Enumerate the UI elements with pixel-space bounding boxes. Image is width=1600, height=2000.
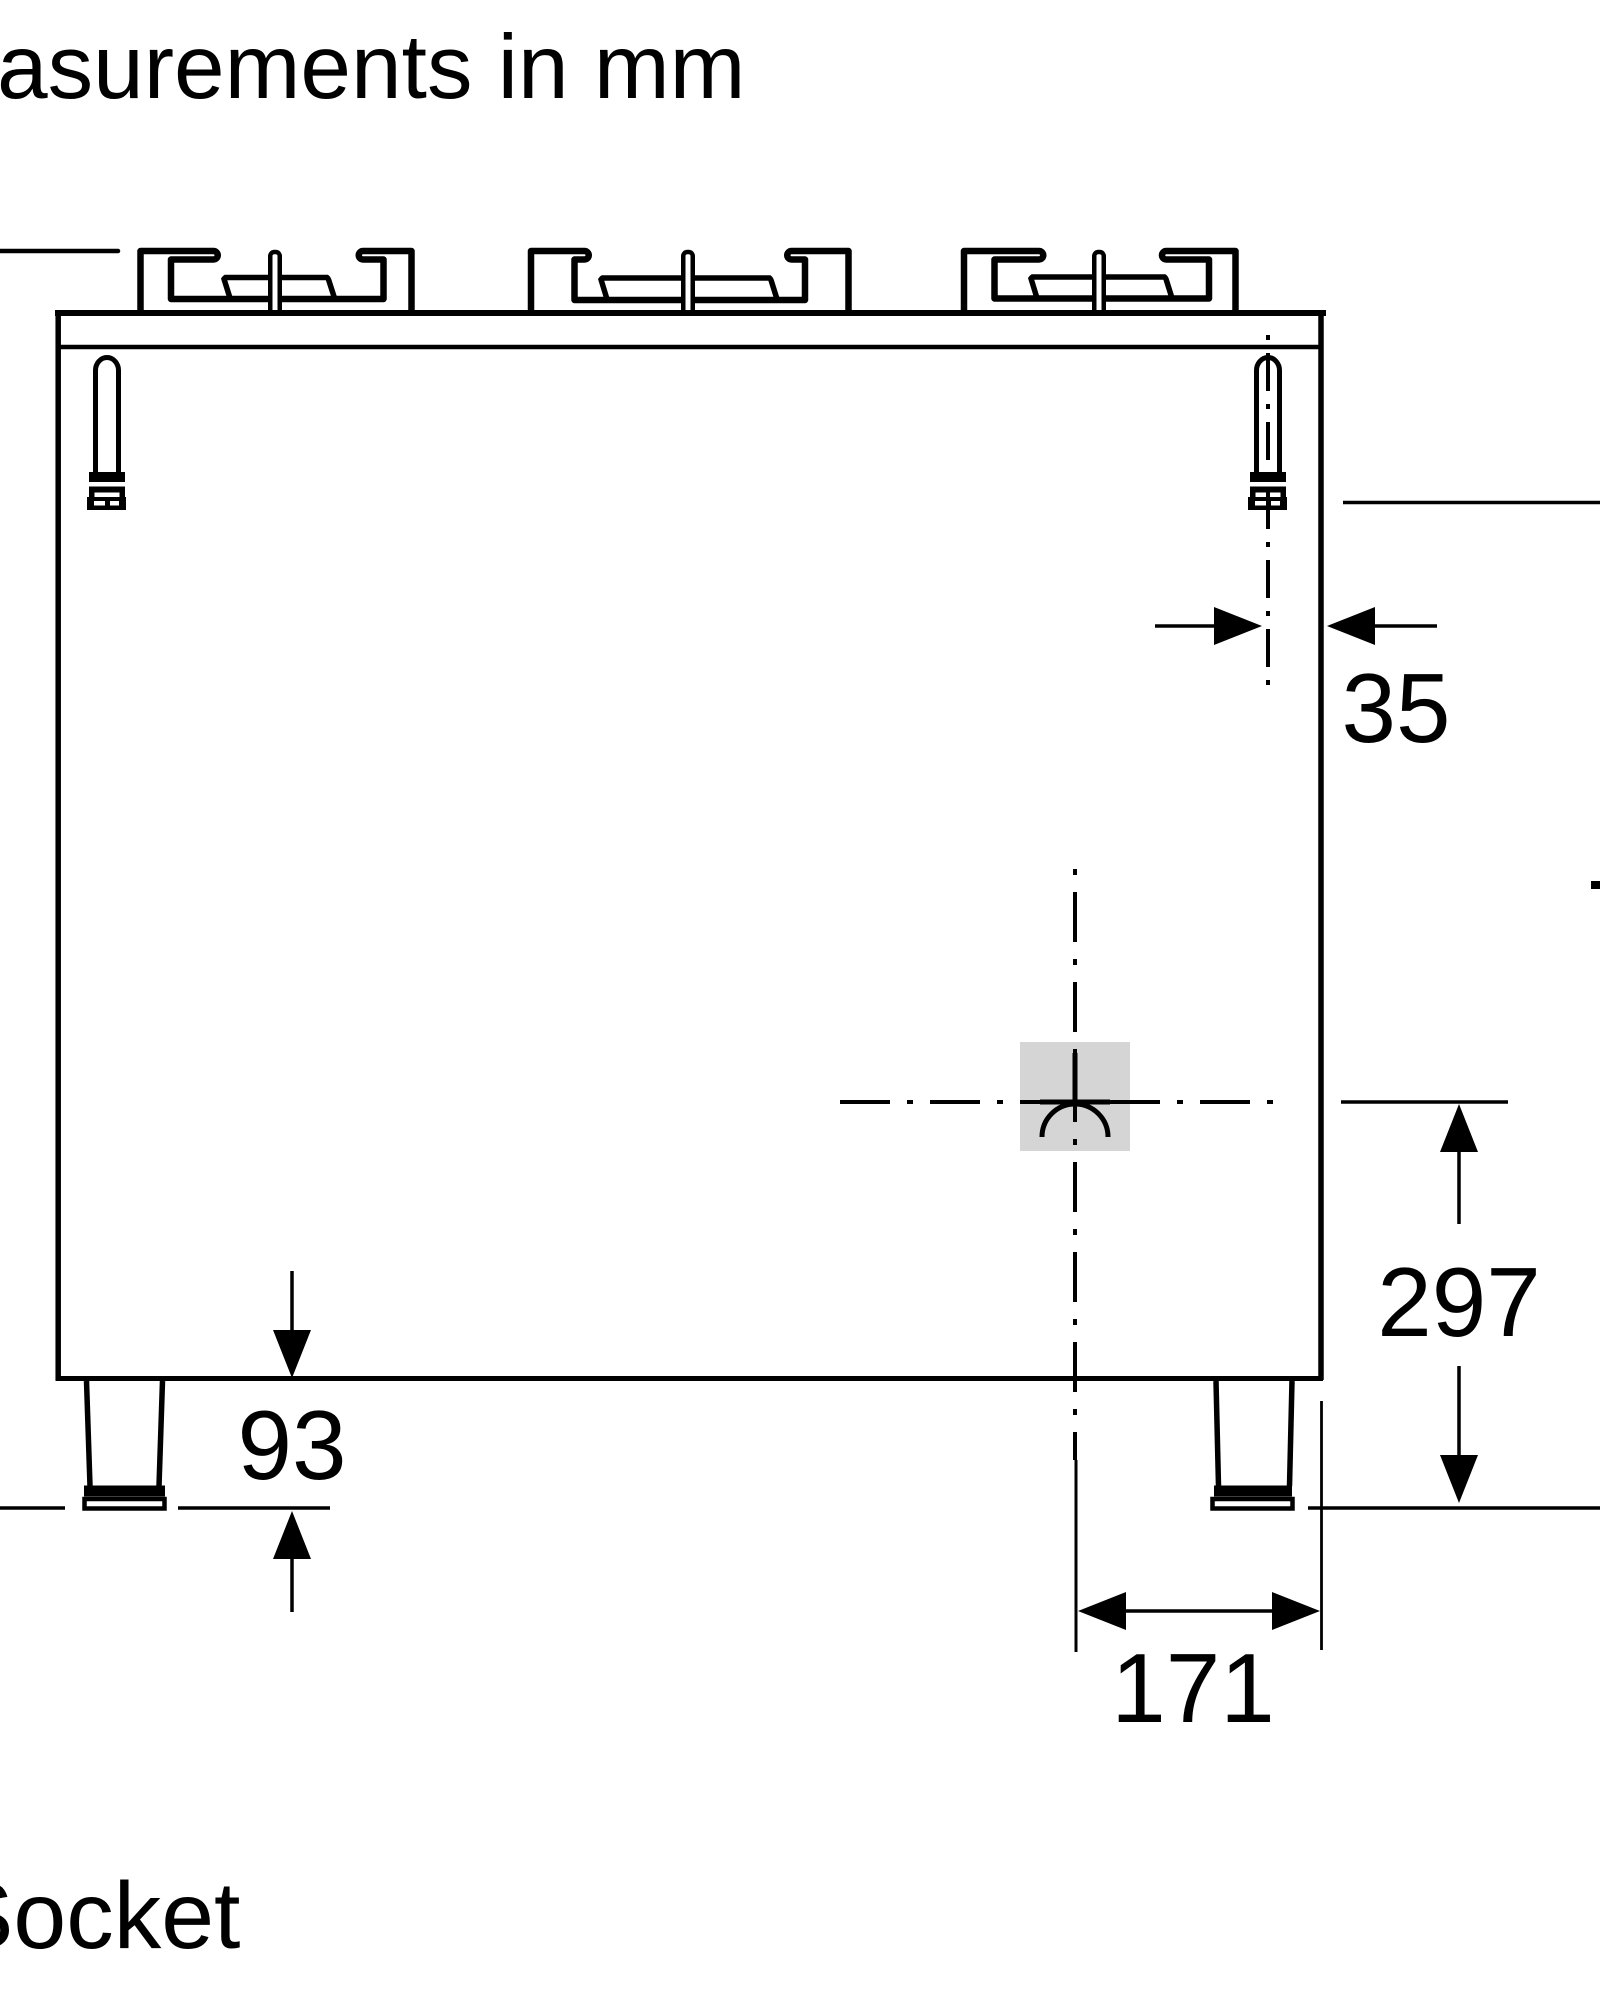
dim 297 upper line [1457,1150,1461,1224]
burner 2 stem [683,252,693,313]
right gas pipe tube [1256,358,1279,475]
dim 93 lower line [290,1557,294,1612]
left pipe fitting ring 2 [89,487,125,493]
burner 2 right cap [692,278,777,298]
dim 35 left tail line [1155,624,1216,628]
socket symbol [1040,1053,1110,1137]
cabinet bottom edge [56,1376,1324,1381]
dim 297 upper arrowhead [1440,1104,1478,1152]
burner grate unit 1 rails [141,251,412,313]
svg-text:asurements in mm: asurements in mm [0,17,745,118]
dim 35 left arrowhead [1214,607,1262,645]
svg-text:Socket: Socket [0,1863,240,1969]
burner 3 stem [1094,252,1104,313]
stray dash at right edge [1591,881,1600,889]
svg-text:171: 171 [1111,1633,1275,1743]
socket gray square [1020,1042,1130,1151]
burner 3 left cap [1031,277,1095,297]
svg-text:93: 93 [237,1390,346,1500]
burner 1 left cap [224,278,273,297]
burner 1 right cap [278,278,334,297]
dim 171 right extension line [1320,1401,1323,1650]
reference line to right edge [1343,501,1600,505]
dim 171 left extension line [1075,1460,1078,1652]
burner 1 stem [270,252,280,313]
right pipe fitting base [1248,497,1287,510]
svg-text:35: 35 [1341,653,1450,763]
right foot pad [1213,1499,1293,1509]
left pipe fitting collar ticks [89,493,95,498]
socket horizontal centerline (dash-dot) [840,1100,1279,1104]
right pipe fitting ring 1 [1250,472,1286,482]
right pipe fitting ring 2 [1250,487,1286,493]
dim 35 right tail line [1375,624,1437,628]
dim 297 lower line [1457,1366,1461,1456]
burner 2 left cap [601,278,684,298]
dim 35 right arrowhead [1327,607,1375,645]
left foot pad [85,1499,165,1509]
left leg [87,1381,163,1486]
cooktop top surface line [55,310,1326,316]
left pipe fitting base [87,497,126,510]
dim 297 lower arrowhead [1440,1455,1478,1503]
burner grate unit 3 rails [964,251,1236,313]
dim 93 upper arrowhead (down) [273,1330,311,1378]
left leg base band [84,1486,165,1497]
dim 93 lower arrowhead (up) [273,1511,311,1559]
cabinet right wall [1318,311,1324,1380]
dim 171 right arrowhead [1272,1592,1320,1630]
cooktop second line [58,345,1322,350]
cabinet left wall [55,311,61,1380]
right leg [1216,1381,1292,1486]
dim 171 left arrowhead [1078,1592,1126,1630]
socket vertical centerline (dash-dot) [1073,869,1077,1460]
dim 171 line [1124,1609,1274,1613]
right pipe fitting collar ticks [1250,493,1256,498]
burner grate unit 2 rails [531,251,849,313]
right leg base band [1214,1486,1292,1497]
left gas pipe tube [95,358,118,475]
dimension leader line top-left [0,249,118,254]
burner 3 right cap [1104,277,1172,297]
svg-text:297: 297 [1377,1247,1541,1357]
right pipe centerline (dash-dot) [1266,331,1270,688]
left pipe fitting ring 1 [89,472,125,482]
socket centerline extension to dim 297 [1341,1100,1508,1104]
dim 93 upper line [290,1271,294,1332]
floor reference line segments [0,1506,65,1510]
